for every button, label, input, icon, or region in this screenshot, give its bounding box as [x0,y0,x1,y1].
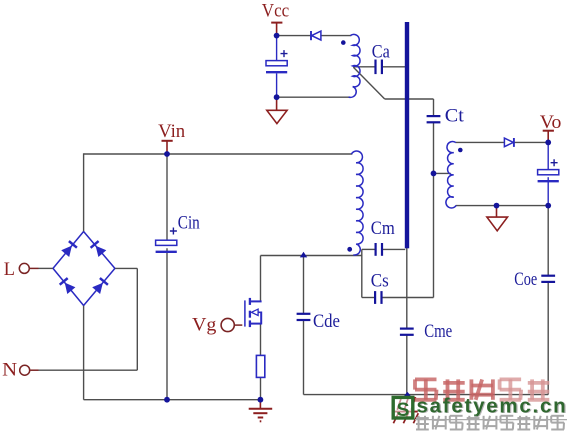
bridge edge top-left [53,232,84,269]
resistor (MOSFET source) [256,355,264,377]
node Vo junction [545,140,551,146]
plus mark Vo cap [551,159,558,166]
wire Cin lower lead [166,248,168,399]
wire Ct bottom long lead [433,122,435,297]
svg-text:Vo: Vo [540,113,562,133]
wire drain node (y=255.5) [261,255,362,257]
svg-text:Cde: Cde [313,312,340,332]
wire Cme bottom lead [406,335,408,395]
wire bottom floating net [304,394,549,396]
node secondary ground junction [494,203,500,209]
svg-text:Cin: Cin [178,214,200,234]
MOSFET Q1 drain lead [250,300,262,302]
watermark underline [415,419,567,421]
svg-text:Cme: Cme [424,322,452,342]
wire top rail Vin (y=154) [84,153,353,155]
svg-text:N: N [2,360,17,380]
bridge diode D4 (bottom to right) [92,283,103,294]
diode output rectifier (points right) [504,138,513,147]
capacitor Cs [374,291,376,304]
svg-text:Cm: Cm [371,219,396,239]
bridge diode D3 (bottom to left) [65,283,76,294]
net stub Vcc (red) [276,23,278,36]
bridge edge top-right [84,232,115,269]
net stub Vo (red) [547,131,549,142]
primary winding phase dot [347,247,352,252]
wire Vcc cap bottom lead [276,73,278,97]
wire Vo down to Coe [547,206,549,276]
MOSFET Q1 channel segments [249,298,251,305]
wire Cde top lead [303,256,305,314]
bridge edge bottom-right [84,268,115,305]
MOSFET Q1 source lead [250,323,262,325]
net stub Vin (red) [166,141,168,154]
wire bridge bottom riser [83,306,85,400]
wire bridge right vertex to corner [115,267,137,269]
node earth junction (triangle) [404,392,411,397]
plus mark Vcc cap [281,50,288,57]
svg-text:Ca: Ca [372,43,390,63]
bridge diode D1 (left to top) [61,246,72,257]
wire Cde bottom lead [303,320,305,394]
transformer auxiliary winding (Vcc) [349,34,360,97]
svg-text:Ct: Ct [445,106,465,126]
wire secondary tap [434,172,451,174]
svg-text:S: S [396,399,409,421]
wire N horizontal [39,369,138,371]
wire mosfet drain riser [260,256,262,301]
ground stub secondary [496,206,498,217]
wire diode to Vo node [514,141,548,143]
wire Vo cap top lead [547,142,549,169]
svg-text:Vin: Vin [158,122,185,142]
wire L to bridge left vertex [39,267,54,269]
terminal circle L [19,263,29,273]
wire Vo cap bottom lead [547,177,549,205]
wire secondary bottom [456,205,548,207]
bridge edge bottom-left [53,268,84,305]
transformer secondary winding [446,142,456,208]
wire Vcc bottom return [277,96,349,98]
terminal circle Vg [221,318,234,331]
node source-rail junction [258,397,264,403]
wire N terminal stub (red) [30,369,38,371]
capacitor Vo output (electrolytic) [538,170,559,175]
secondary winding phase dot [458,148,463,153]
ground stub Vcc [276,97,278,110]
wire aux tap to Ca [353,66,375,68]
terminal circle N [20,365,30,375]
wire to Ct (y=99) [385,98,434,100]
wire secondary top to diode [456,141,505,143]
ground secondary (triangle) [487,217,508,231]
wire Cm left lead [362,248,376,250]
ground chassis (hatched, behind watermark) [397,397,401,410]
wire Cme top lead [406,298,408,329]
ground Vcc (triangle) [267,110,287,123]
svg-text:Vcc: Vcc [262,2,289,22]
wire right corner down [136,268,138,370]
wire Cs right lead [382,297,434,299]
ground main (earth bars) [249,408,273,410]
MOSFET Q1 gate bar [244,300,246,326]
wire L terminal stub (red) [30,267,39,269]
watermark gray Chinese caption [416,417,429,419]
wire Vcc node to diode [277,35,311,37]
wire Cin upper lead [166,154,168,240]
MOSFET Q1 source-body bar [260,312,262,325]
node Vcc top junction [274,33,280,39]
svg-text:Coe: Coe [514,270,537,290]
capacitor Coe [541,275,555,277]
wire ground rail (y=400) [84,399,261,401]
node Cin-rail junction [164,397,170,403]
wire Coe bottom lead [547,282,549,395]
watermark logo box S [393,397,413,418]
wire Ct top lead [433,99,435,116]
wire Ca to shield bar [382,66,405,68]
capacitor Cin (electrolytic) [156,240,177,245]
svg-text:Vg: Vg [192,316,216,336]
node Vin junction [164,151,170,157]
node secondary tap junction [431,171,437,177]
auxiliary winding phase dot [341,40,346,45]
ground stub main [259,400,261,408]
capacitor Cde [297,313,311,315]
wire Cm right lead to bar [382,248,405,250]
shield bar (thick vertical line) [405,22,409,248]
transformer primary winding [351,151,363,255]
wire resistor to rail [260,377,262,399]
wire bridge top riser [83,153,85,232]
node Vo cap bottom junction [545,203,551,209]
capacitor Vcc filter (electrolytic) [266,61,287,66]
capacitor Ca [374,60,376,75]
capacitor Ct [427,115,441,117]
MOSFET Q1 body arrow [251,309,258,315]
wire drain to Cs vertical [361,249,363,297]
svg-text:safetyemc.cn: safetyemc.cn [417,394,568,417]
wire Vcc cap top lead [276,36,278,61]
bridge diode D2 (right to top) [96,246,107,257]
watermark red Chinese characters [415,377,437,381]
wire shield bar extension [406,248,408,298]
wire diagonal from aux tap [353,67,384,99]
node drain-Cde junction (triangle) [300,252,307,258]
diode Vcc rectifier (points left) [312,31,321,40]
wire Vg gate lead (red) [235,324,242,326]
wire Cs left lead [362,297,375,299]
svg-text:L: L [4,260,15,280]
capacitor Cm [375,243,377,256]
plus mark Cin [170,228,177,235]
wire diode to aux winding [321,35,351,37]
node Vcc bottom junction [274,94,280,100]
wire mosfet source drop [260,324,262,356]
svg-text:Cs: Cs [371,272,389,292]
capacitor Cme [400,328,414,330]
